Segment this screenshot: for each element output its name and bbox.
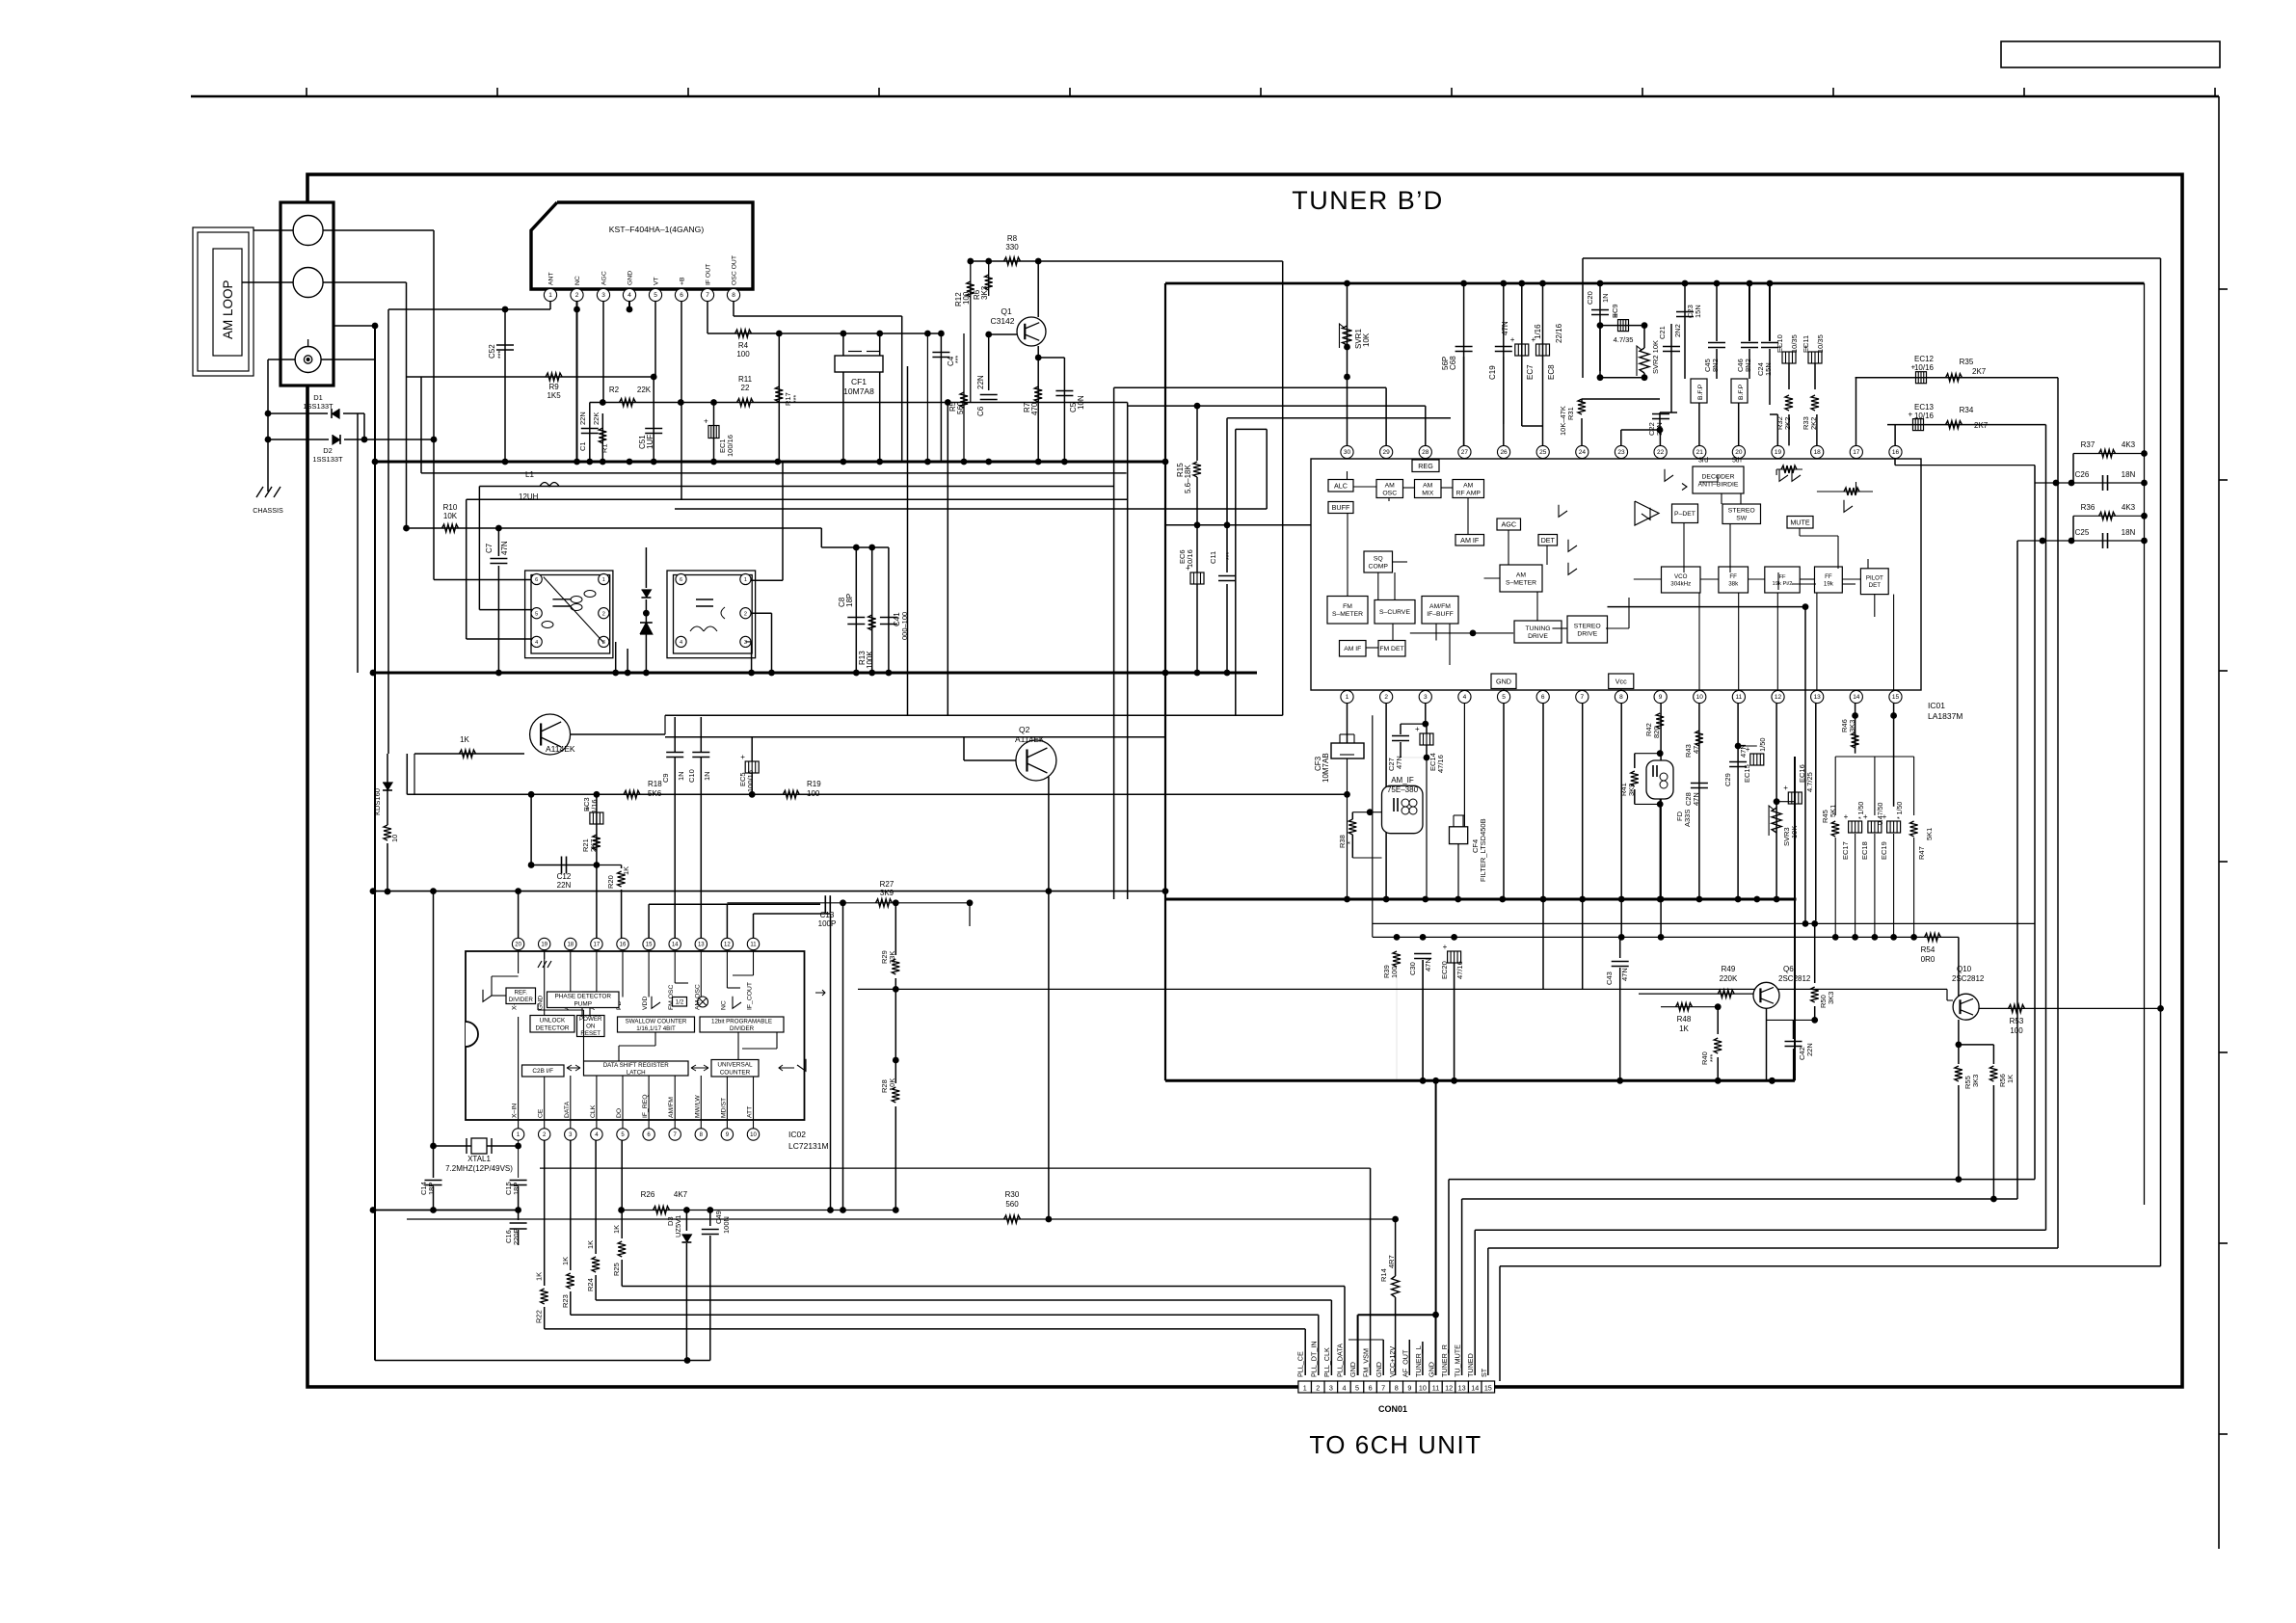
svg-text:C7: C7 bbox=[485, 543, 494, 553]
svg-text:C29: C29 bbox=[1723, 773, 1732, 786]
svg-text:P–DET: P–DET bbox=[1674, 511, 1695, 518]
svg-text:R11: R11 bbox=[738, 375, 753, 384]
svg-text:EC18: EC18 bbox=[1860, 841, 1869, 860]
svg-text:4: 4 bbox=[627, 292, 631, 299]
svg-text:FF: FF bbox=[1825, 573, 1832, 580]
svg-text:R26: R26 bbox=[641, 1190, 655, 1199]
svg-text:R48: R48 bbox=[1677, 1015, 1692, 1024]
svg-text:C26: C26 bbox=[2075, 470, 2090, 479]
svg-text:5.6–18K: 5.6–18K bbox=[1184, 465, 1192, 493]
svg-text:2K7: 2K7 bbox=[1974, 421, 1989, 430]
svg-text:EC20: EC20 bbox=[1440, 961, 1449, 979]
svg-text:PLL_DT_IN: PLL_DT_IN bbox=[1309, 1341, 1318, 1377]
svg-text:22N: 22N bbox=[976, 375, 985, 389]
svg-text:8N2: 8N2 bbox=[1744, 359, 1752, 372]
svg-text:100: 100 bbox=[736, 350, 750, 359]
svg-text:C9: C9 bbox=[661, 773, 670, 783]
svg-text:560: 560 bbox=[1005, 1200, 1019, 1209]
svg-text:MIX: MIX bbox=[1422, 490, 1434, 496]
svg-text:6: 6 bbox=[680, 292, 683, 299]
svg-text:TUNING: TUNING bbox=[1525, 625, 1550, 632]
svg-text:EC19: EC19 bbox=[1880, 841, 1888, 860]
svg-text:3K3: 3K3 bbox=[1827, 992, 1835, 1004]
svg-text:2: 2 bbox=[602, 611, 605, 617]
svg-text:AM: AM bbox=[1516, 572, 1527, 578]
svg-text:1K: 1K bbox=[1679, 1024, 1689, 1033]
svg-text:Q10: Q10 bbox=[1957, 965, 1972, 973]
svg-text:4K3: 4K3 bbox=[2122, 503, 2136, 512]
svg-text:2N2: 2N2 bbox=[1673, 324, 1682, 337]
svg-text:TUNED: TUNED bbox=[1466, 1353, 1475, 1377]
svg-text:8: 8 bbox=[732, 292, 735, 299]
svg-text:10/16: 10/16 bbox=[1186, 549, 1194, 568]
svg-text:6: 6 bbox=[535, 577, 538, 583]
svg-text:13: 13 bbox=[1814, 694, 1822, 701]
svg-text:3K3: 3K3 bbox=[980, 285, 989, 300]
svg-text:IF_REQ: IF_REQ bbox=[642, 1094, 649, 1118]
svg-text:R9: R9 bbox=[548, 383, 559, 391]
svg-text:PILOT: PILOT bbox=[1866, 575, 1883, 582]
svg-text:23: 23 bbox=[1617, 449, 1625, 456]
svg-text:12: 12 bbox=[1775, 694, 1782, 701]
svg-text:4.7/25: 4.7/25 bbox=[1805, 772, 1814, 792]
svg-text:EC10: EC10 bbox=[1775, 334, 1784, 353]
svg-text:304kHz: 304kHz bbox=[1670, 580, 1691, 587]
svg-text:FM DET: FM DET bbox=[1379, 646, 1403, 652]
svg-text:100/16: 100/16 bbox=[746, 770, 755, 792]
svg-text:R2: R2 bbox=[609, 386, 620, 394]
svg-text:5: 5 bbox=[654, 292, 657, 299]
svg-text:19k: 19k bbox=[1824, 580, 1834, 587]
svg-text:1SS133T: 1SS133T bbox=[303, 402, 334, 411]
svg-text:10M7AB: 10M7AB bbox=[1322, 753, 1330, 783]
svg-text:C25: C25 bbox=[2075, 528, 2090, 537]
svg-text:R1: R1 bbox=[601, 443, 609, 453]
svg-text:+: + bbox=[740, 753, 745, 761]
svg-text:220P: 220P bbox=[512, 1228, 521, 1245]
svg-text:NC: NC bbox=[720, 1000, 727, 1010]
svg-text:1: 1 bbox=[1303, 1383, 1307, 1392]
svg-text:R37: R37 bbox=[2081, 440, 2096, 449]
svg-text:ATT: ATT bbox=[747, 1106, 754, 1118]
svg-text:2K2: 2K2 bbox=[1783, 417, 1792, 430]
svg-text:S–CURVE: S–CURVE bbox=[1379, 609, 1410, 616]
svg-text:AM: AM bbox=[1463, 482, 1474, 489]
svg-text:C3142: C3142 bbox=[990, 316, 1014, 326]
svg-text:NC: NC bbox=[574, 276, 581, 285]
svg-text:***: *** bbox=[1710, 1054, 1717, 1062]
svg-text:1/50: 1/50 bbox=[1758, 737, 1767, 752]
svg-text:19: 19 bbox=[541, 943, 547, 948]
svg-text:8: 8 bbox=[1395, 1383, 1399, 1392]
svg-text:15: 15 bbox=[646, 943, 653, 948]
svg-text:DETECTOR: DETECTOR bbox=[535, 1024, 569, 1031]
svg-text:ANT: ANT bbox=[548, 272, 555, 285]
svg-text:KDS160: KDS160 bbox=[373, 788, 382, 815]
svg-text:VDD: VDD bbox=[642, 997, 649, 1010]
svg-text:AF_OUT: AF_OUT bbox=[1401, 1349, 1409, 1377]
svg-text:2SC2812: 2SC2812 bbox=[1778, 974, 1811, 983]
svg-text:DET: DET bbox=[1541, 536, 1556, 545]
svg-text:MUTE: MUTE bbox=[1790, 518, 1810, 526]
svg-text:+: + bbox=[1863, 812, 1868, 821]
svg-text:15: 15 bbox=[1484, 1383, 1492, 1392]
svg-text:ALC: ALC bbox=[1334, 481, 1348, 490]
svg-text:EC11: EC11 bbox=[1802, 335, 1810, 353]
svg-text:ST: ST bbox=[1480, 1368, 1488, 1377]
svg-text:8: 8 bbox=[1619, 694, 1623, 701]
svg-text:COMP: COMP bbox=[1369, 563, 1389, 570]
svg-text:10M7A8: 10M7A8 bbox=[843, 386, 874, 396]
svg-text:EC8: EC8 bbox=[1547, 364, 1556, 380]
svg-text:C21: C21 bbox=[1658, 326, 1667, 339]
svg-text:BUFF: BUFF bbox=[1332, 503, 1350, 512]
svg-text:4R7: 4R7 bbox=[1387, 1255, 1396, 1268]
svg-text:AM IF: AM IF bbox=[1344, 646, 1361, 652]
svg-text:+: + bbox=[1882, 812, 1887, 821]
svg-text:1K5: 1K5 bbox=[547, 391, 561, 400]
svg-text:CLK: CLK bbox=[590, 1104, 597, 1118]
svg-text:SQ: SQ bbox=[1374, 555, 1383, 562]
svg-text:TUNER_L: TUNER_L bbox=[1414, 1345, 1423, 1377]
svg-text:PHASE DETECTOR: PHASE DETECTOR bbox=[555, 994, 612, 1000]
svg-text:R19: R19 bbox=[807, 780, 821, 788]
svg-text:56P: 56P bbox=[1441, 357, 1450, 370]
svg-text:EC17: EC17 bbox=[1841, 841, 1850, 860]
svg-text:3K9: 3K9 bbox=[880, 889, 894, 897]
svg-text:IF_COUT: IF_COUT bbox=[747, 982, 754, 1010]
svg-text:10: 10 bbox=[1696, 694, 1704, 701]
svg-text:A114EK: A114EK bbox=[1015, 734, 1045, 744]
svg-text:100P: 100P bbox=[818, 919, 837, 928]
svg-text:0R0: 0R0 bbox=[1921, 955, 1936, 964]
svg-text:STEREO: STEREO bbox=[1728, 508, 1755, 515]
svg-text:R36: R36 bbox=[2081, 503, 2096, 512]
svg-text:C11: C11 bbox=[1209, 551, 1217, 564]
svg-text:PLL_DATA: PLL_DATA bbox=[1335, 1344, 1344, 1377]
svg-text:R25: R25 bbox=[612, 1263, 621, 1276]
svg-text:100: 100 bbox=[962, 291, 971, 305]
svg-text:13: 13 bbox=[1458, 1383, 1466, 1392]
svg-text:47N: 47N bbox=[1424, 958, 1432, 971]
svg-text:DET: DET bbox=[1869, 582, 1882, 589]
svg-text:1SS133T: 1SS133T bbox=[312, 455, 343, 464]
svg-text:5: 5 bbox=[535, 611, 538, 617]
svg-text:10K: 10K bbox=[1362, 333, 1371, 347]
svg-text:7: 7 bbox=[1381, 1383, 1385, 1392]
svg-text:C2B I/F: C2B I/F bbox=[532, 1068, 553, 1075]
svg-text:R22: R22 bbox=[535, 1310, 544, 1323]
svg-text:21: 21 bbox=[1696, 449, 1704, 456]
svg-text:CF1: CF1 bbox=[851, 377, 867, 386]
svg-text:22K: 22K bbox=[592, 412, 601, 425]
svg-text:R4: R4 bbox=[738, 341, 749, 350]
svg-text:13: 13 bbox=[698, 943, 705, 948]
svg-text:17: 17 bbox=[1853, 449, 1860, 456]
svg-text:UNLOCK: UNLOCK bbox=[540, 1018, 566, 1024]
svg-text:5K6: 5K6 bbox=[648, 789, 662, 798]
svg-text:10/16: 10/16 bbox=[1914, 412, 1935, 420]
svg-text:DATA: DATA bbox=[564, 1101, 571, 1118]
svg-text:MD/ST: MD/ST bbox=[720, 1098, 727, 1118]
svg-text:Q6: Q6 bbox=[1783, 965, 1794, 973]
svg-text:+B: +B bbox=[680, 277, 686, 285]
svg-text:14: 14 bbox=[672, 943, 679, 948]
svg-text:AM LOOP: AM LOOP bbox=[221, 279, 235, 339]
svg-text:UZ5V1: UZ5V1 bbox=[674, 1215, 682, 1237]
svg-text:C20: C20 bbox=[1586, 291, 1594, 305]
svg-text:7: 7 bbox=[706, 292, 709, 299]
svg-text:1N: 1N bbox=[1601, 293, 1610, 303]
svg-text:3K3: 3K3 bbox=[1848, 720, 1856, 732]
svg-text:C30: C30 bbox=[1408, 962, 1417, 975]
svg-text:PUMP: PUMP bbox=[574, 1000, 592, 1007]
svg-text:15: 15 bbox=[1892, 694, 1900, 701]
svg-text:+: + bbox=[1415, 725, 1420, 733]
svg-text:EC15: EC15 bbox=[1743, 764, 1751, 783]
svg-text:18P: 18P bbox=[512, 1183, 521, 1195]
svg-text:R27: R27 bbox=[880, 880, 894, 889]
svg-text:+: + bbox=[1909, 411, 1913, 419]
svg-text:L1: L1 bbox=[525, 470, 534, 479]
svg-text:6: 6 bbox=[1369, 1383, 1373, 1392]
svg-text:18N: 18N bbox=[2122, 470, 2136, 479]
svg-text:6: 6 bbox=[680, 577, 682, 583]
svg-text:1K: 1K bbox=[535, 1272, 544, 1281]
svg-text:560: 560 bbox=[956, 401, 965, 414]
svg-text:1N: 1N bbox=[677, 771, 685, 781]
svg-text:47/16: 47/16 bbox=[1436, 755, 1445, 773]
svg-text:AM/FM: AM/FM bbox=[668, 1097, 675, 1118]
svg-text:FF: FF bbox=[1729, 573, 1737, 580]
svg-text:C6: C6 bbox=[976, 406, 985, 416]
svg-text:3K3: 3K3 bbox=[1971, 1075, 1980, 1087]
svg-text:3: 3 bbox=[601, 292, 605, 299]
svg-text:AM: AM bbox=[1385, 482, 1396, 489]
svg-text:10: 10 bbox=[390, 835, 399, 842]
svg-text:D2: D2 bbox=[323, 446, 333, 455]
svg-text:4: 4 bbox=[1342, 1383, 1346, 1392]
svg-text:1N: 1N bbox=[703, 771, 711, 781]
svg-text:18: 18 bbox=[1814, 449, 1822, 456]
svg-text:R14: R14 bbox=[1379, 1268, 1388, 1282]
svg-text:9: 9 bbox=[1407, 1383, 1411, 1392]
svg-text:R10: R10 bbox=[443, 503, 458, 512]
svg-text:+: + bbox=[1844, 812, 1849, 821]
svg-text:47N: 47N bbox=[1395, 756, 1403, 769]
svg-text:GND: GND bbox=[627, 271, 634, 285]
svg-text:22: 22 bbox=[741, 384, 750, 392]
svg-text:18P: 18P bbox=[845, 594, 854, 607]
svg-text:RF AMP: RF AMP bbox=[1456, 490, 1482, 496]
svg-text:FM: FM bbox=[1343, 603, 1352, 610]
svg-text:38k: 38k bbox=[1728, 580, 1739, 587]
svg-text:10N: 10N bbox=[1077, 395, 1085, 410]
svg-text:Q2: Q2 bbox=[1019, 725, 1030, 734]
svg-text:5: 5 bbox=[1502, 694, 1506, 701]
svg-text:GND: GND bbox=[1496, 677, 1511, 685]
svg-text:CHASSIS: CHASSIS bbox=[253, 506, 283, 515]
svg-text:GND: GND bbox=[1428, 1362, 1436, 1377]
svg-text:18N: 18N bbox=[2122, 528, 2136, 537]
svg-text:100: 100 bbox=[807, 789, 820, 798]
svg-text:AGC: AGC bbox=[601, 271, 608, 285]
svg-text:7.2MHZ(12P/49VS): 7.2MHZ(12P/49VS) bbox=[445, 1164, 513, 1173]
svg-text:220K: 220K bbox=[1720, 974, 1738, 983]
svg-text:R24: R24 bbox=[586, 1278, 595, 1291]
svg-text:CON01: CON01 bbox=[1378, 1404, 1407, 1414]
svg-text:19k Pi/2: 19k Pi/2 bbox=[1773, 581, 1793, 587]
svg-text:47/16: 47/16 bbox=[1455, 961, 1464, 979]
svg-text:TUNER_R: TUNER_R bbox=[1440, 1344, 1449, 1377]
svg-text:ON: ON bbox=[586, 1024, 595, 1030]
svg-text:4K3: 4K3 bbox=[2122, 440, 2136, 449]
svg-text:3: 3 bbox=[1424, 694, 1428, 701]
svg-text:COUNTER: COUNTER bbox=[720, 1069, 751, 1076]
svg-text:22N: 22N bbox=[557, 881, 572, 890]
svg-text:TU_MUTE: TU_MUTE bbox=[1454, 1344, 1462, 1377]
svg-text:100/16: 100/16 bbox=[726, 435, 734, 457]
svg-text:R31: R31 bbox=[1566, 407, 1575, 420]
svg-text:47N: 47N bbox=[1692, 792, 1700, 806]
svg-text:15N: 15N bbox=[1694, 305, 1702, 318]
svg-text:C10: C10 bbox=[687, 769, 696, 783]
svg-text:47N: 47N bbox=[500, 541, 509, 555]
svg-text:REG: REG bbox=[1418, 462, 1433, 470]
svg-text:OSC: OSC bbox=[1382, 490, 1397, 496]
svg-text:8N2: 8N2 bbox=[1711, 359, 1720, 372]
svg-text:26: 26 bbox=[1500, 449, 1508, 456]
svg-text:CE: CE bbox=[538, 1108, 545, 1118]
svg-text:R34: R34 bbox=[1960, 406, 1974, 414]
svg-text:1: 1 bbox=[602, 577, 605, 583]
svg-text:5: 5 bbox=[1355, 1383, 1359, 1392]
svg-text:10K–47K: 10K–47K bbox=[1559, 406, 1567, 436]
svg-text:POWER: POWER bbox=[579, 1016, 602, 1023]
svg-text:AM: AM bbox=[1423, 482, 1433, 489]
svg-text:FM_VSM: FM_VSM bbox=[1362, 1348, 1371, 1377]
svg-text:19: 19 bbox=[1775, 449, 1782, 456]
svg-text:C12: C12 bbox=[557, 872, 572, 881]
svg-text:20: 20 bbox=[1735, 449, 1743, 456]
svg-text:5th: 5th bbox=[1732, 458, 1742, 465]
svg-text:22/16: 22/16 bbox=[1555, 323, 1563, 343]
svg-text:LC72131M: LC72131M bbox=[788, 1141, 829, 1151]
svg-text:1K: 1K bbox=[2006, 1075, 2015, 1083]
svg-text:EC12: EC12 bbox=[1914, 355, 1935, 363]
svg-text:2SC2812: 2SC2812 bbox=[1952, 974, 1985, 983]
svg-text:R8: R8 bbox=[1007, 234, 1018, 243]
svg-text:R18: R18 bbox=[648, 780, 662, 788]
svg-text:2K7: 2K7 bbox=[589, 839, 598, 852]
svg-text:R20: R20 bbox=[606, 875, 615, 889]
svg-text:R23: R23 bbox=[561, 1294, 570, 1308]
svg-text:GND: GND bbox=[1375, 1362, 1383, 1377]
svg-text:11: 11 bbox=[750, 943, 757, 948]
svg-text:B.F.P: B.F.P bbox=[1738, 384, 1745, 400]
svg-text:2: 2 bbox=[744, 611, 747, 617]
svg-text:PLL_CLK: PLL_CLK bbox=[1322, 1347, 1331, 1377]
svg-text:DO: DO bbox=[616, 1108, 623, 1118]
svg-text:DATA SHIFT REGISTER: DATA SHIFT REGISTER bbox=[603, 1062, 670, 1069]
svg-text:UNIVERSAL: UNIVERSAL bbox=[717, 1062, 753, 1069]
svg-text:22N: 22N bbox=[578, 412, 587, 425]
svg-text:10: 10 bbox=[750, 1132, 757, 1138]
svg-text:+: + bbox=[704, 417, 708, 426]
svg-text:30: 30 bbox=[1344, 449, 1351, 456]
svg-text:1K: 1K bbox=[622, 866, 630, 875]
svg-text:14: 14 bbox=[1471, 1383, 1479, 1392]
svg-text:000–100: 000–100 bbox=[900, 612, 909, 640]
svg-text:24: 24 bbox=[1579, 449, 1587, 456]
svg-text:22K: 22K bbox=[637, 386, 652, 394]
svg-text:KST–F404HA–1(4GANG): KST–F404HA–1(4GANG) bbox=[609, 225, 705, 234]
svg-text:R40: R40 bbox=[1700, 1051, 1709, 1065]
svg-text:100K: 100K bbox=[866, 651, 874, 669]
svg-text:47N: 47N bbox=[1501, 321, 1509, 335]
svg-text:20: 20 bbox=[515, 943, 521, 948]
svg-text:***: *** bbox=[1226, 552, 1233, 560]
svg-text:6: 6 bbox=[1541, 694, 1545, 701]
svg-text:1: 1 bbox=[744, 577, 747, 583]
svg-text:1K: 1K bbox=[460, 735, 469, 744]
svg-text:17: 17 bbox=[594, 943, 601, 948]
svg-text:25: 25 bbox=[1539, 449, 1547, 456]
svg-text:+: + bbox=[1532, 335, 1536, 344]
svg-text:4: 4 bbox=[680, 640, 682, 646]
svg-text:R47: R47 bbox=[1917, 846, 1926, 860]
svg-text:S–METER: S–METER bbox=[1506, 579, 1536, 586]
svg-text:3rd: 3rd bbox=[1698, 458, 1708, 465]
svg-text:C52: C52 bbox=[488, 344, 496, 359]
svg-text:DIVIDER: DIVIDER bbox=[730, 1025, 755, 1032]
svg-text:AM/FM: AM/FM bbox=[1429, 603, 1451, 610]
svg-text:15N: 15N bbox=[1764, 362, 1773, 376]
svg-text:A33S: A33S bbox=[1683, 810, 1692, 827]
svg-text:3: 3 bbox=[1329, 1383, 1333, 1392]
svg-text:27: 27 bbox=[1461, 449, 1469, 456]
svg-text:18: 18 bbox=[567, 943, 574, 948]
svg-text:1K: 1K bbox=[586, 1240, 595, 1249]
svg-text:REF.: REF. bbox=[515, 990, 528, 997]
svg-text:S–METER: S–METER bbox=[1332, 611, 1363, 618]
svg-text:1/16,1/17 4BIT: 1/16,1/17 4BIT bbox=[636, 1025, 676, 1032]
svg-text:5K1: 5K1 bbox=[1925, 828, 1934, 840]
svg-text:AM IF: AM IF bbox=[1460, 536, 1480, 545]
svg-text:47N: 47N bbox=[1620, 968, 1629, 981]
svg-text:470: 470 bbox=[1030, 402, 1039, 415]
svg-text:Q1: Q1 bbox=[1001, 306, 1012, 316]
svg-text:EC7: EC7 bbox=[1526, 364, 1535, 380]
svg-text:10K: 10K bbox=[443, 512, 458, 520]
svg-text:4: 4 bbox=[1463, 694, 1467, 701]
svg-text:+: + bbox=[1783, 784, 1788, 792]
svg-text:LA1837M: LA1837M bbox=[1928, 711, 1962, 721]
svg-text:SWALLOW COUNTER: SWALLOW COUNTER bbox=[626, 1018, 687, 1024]
svg-text:7: 7 bbox=[1581, 694, 1585, 701]
svg-text:11: 11 bbox=[1432, 1383, 1439, 1392]
svg-text:IF OUT: IF OUT bbox=[706, 264, 712, 285]
svg-text:10/35: 10/35 bbox=[1790, 334, 1799, 353]
svg-text:R30: R30 bbox=[1005, 1190, 1020, 1199]
svg-text:A114EK: A114EK bbox=[546, 744, 575, 754]
svg-text:C43: C43 bbox=[1605, 971, 1614, 985]
svg-text:820: 820 bbox=[1652, 726, 1661, 738]
svg-text:GND: GND bbox=[1348, 1362, 1357, 1377]
svg-text:VT: VT bbox=[654, 277, 660, 285]
svg-text:1: 1 bbox=[1346, 694, 1349, 701]
svg-text:DRIVE: DRIVE bbox=[1577, 630, 1597, 637]
